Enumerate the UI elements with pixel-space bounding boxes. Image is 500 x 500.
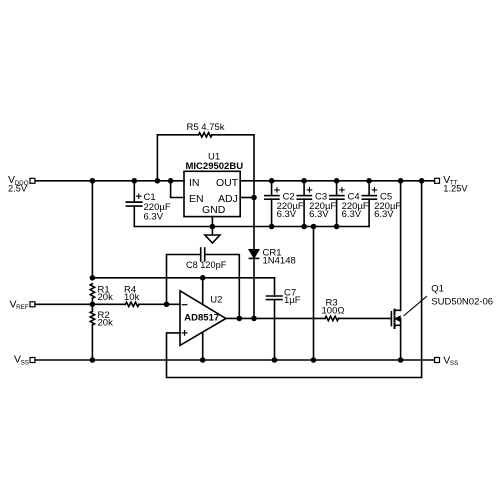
label R2 value — [98, 310, 114, 328]
wire R4 to inverting input — [139, 303, 180, 305]
node VSS left terminal — [30, 358, 35, 363]
svg-text:Q1: Q1 — [431, 284, 444, 295]
svg-text:SS: SS — [21, 359, 29, 366]
label C2 value — [277, 192, 304, 221]
wire VREF line to R4 — [35, 303, 125, 305]
svg-text:6.3V: 6.3V — [144, 212, 164, 223]
wire VDDQ input rail — [35, 180, 184, 182]
label Q1 part — [431, 284, 493, 308]
wire VSS rail — [35, 359, 435, 361]
junction dots input rail — [90, 178, 174, 184]
label VSS right node — [443, 354, 458, 367]
svg-text:20k: 20k — [98, 292, 114, 303]
svg-text:1µF: 1µF — [284, 295, 301, 306]
capacitor C5 — [362, 181, 376, 227]
label R3 value — [322, 297, 345, 316]
wire ground bus under caps — [134, 226, 369, 228]
wire opamp V- pin — [202, 332, 204, 360]
resistor R5 — [199, 133, 213, 137]
svg-text:1.25V: 1.25V — [443, 184, 468, 194]
ground symbol — [205, 227, 220, 244]
capacitor C2 — [265, 181, 279, 227]
svg-text:100Ω: 100Ω — [322, 306, 345, 317]
label C5 value — [374, 192, 401, 221]
capacitor C8 — [201, 248, 205, 261]
resistor R1 — [90, 284, 94, 299]
label CR1 value — [263, 247, 296, 266]
svg-text:REF: REF — [16, 304, 29, 311]
label VTT node — [443, 174, 468, 194]
svg-text:R5 4.75k: R5 4.75k — [187, 122, 225, 133]
capacitor C7 — [267, 278, 283, 360]
svg-text:SUD50N02-06: SUD50N02-06 — [431, 296, 493, 307]
node VDDQ terminal — [30, 178, 35, 183]
wire opamp V+ pin — [202, 278, 204, 305]
svg-text:OUT: OUT — [216, 177, 239, 189]
wire R5 left riser — [157, 135, 198, 181]
junction dots V+ power line — [90, 275, 206, 281]
op-amp U2 triangle — [180, 291, 226, 346]
svg-text:GND: GND — [202, 204, 226, 216]
svg-text:C8 120pF: C8 120pF — [186, 260, 227, 270]
svg-text:6.3V: 6.3V — [374, 209, 394, 220]
svg-text:6.3V: 6.3V — [309, 209, 329, 220]
opamp minus input symbol — [182, 304, 187, 306]
svg-text:IN: IN — [189, 177, 200, 189]
opamp plus input symbol — [182, 331, 187, 336]
resistor R2 — [90, 304, 94, 360]
resistor R3 — [325, 316, 339, 320]
wire opamp V+ power line — [92, 277, 274, 279]
node VREF terminal — [30, 302, 35, 307]
wire EN tie to input rail — [171, 181, 184, 198]
svg-text:6.3V: 6.3V — [342, 209, 362, 220]
node VTT terminal — [435, 178, 440, 183]
svg-text:20k: 20k — [98, 317, 114, 328]
capacitor C4 — [330, 181, 344, 227]
node VSS right terminal — [435, 358, 440, 363]
label VDDQ node — [8, 174, 29, 193]
wire opamp output — [226, 317, 325, 319]
capacitor C1 — [126, 181, 141, 227]
svg-text:1N4148: 1N4148 — [263, 256, 296, 267]
label R4 value — [124, 285, 140, 304]
wire R1 column drop from VDDQ rail — [91, 181, 93, 278]
svg-text:SS: SS — [450, 360, 458, 367]
transistor Q1 MOSFET — [391, 310, 400, 360]
svg-text:6.3V: 6.3V — [277, 209, 297, 220]
svg-text:2.5V: 2.5V — [8, 184, 28, 194]
svg-text:10k: 10k — [124, 292, 140, 303]
junction dots ground bus — [210, 224, 340, 230]
wire ground bus drop to VSS rail — [313, 227, 315, 361]
label C1 value — [144, 192, 171, 223]
diode CR1 — [249, 198, 258, 319]
svg-text:U2: U2 — [210, 295, 222, 306]
wire U1 GND pin — [211, 217, 213, 227]
wire R5 right to ADJ node — [212, 135, 254, 198]
label VREF node — [10, 299, 29, 312]
junction dots output line — [237, 316, 257, 322]
junction dots output rail — [269, 178, 425, 184]
label C7 value — [284, 288, 301, 306]
wire C8 to output drop — [205, 255, 240, 319]
op-amp regulator U1 box — [184, 171, 240, 216]
annotation pointer Q1 — [404, 297, 427, 316]
wire noninverting input to bottom feedback — [167, 181, 422, 378]
label C4 value — [342, 192, 369, 221]
junction dot ADJ node — [251, 195, 257, 201]
wire R3 to Q1 gate — [339, 317, 390, 319]
label R1 value — [98, 285, 114, 304]
wire R1 bottom stub — [91, 298, 93, 304]
wire ADJ pin stub — [240, 197, 254, 199]
svg-text:AD8517: AD8517 — [184, 313, 219, 324]
svg-text:MIC29502BU: MIC29502BU — [186, 161, 244, 172]
capacitor C3 — [297, 181, 311, 227]
wire C8 feedback riser — [167, 255, 201, 305]
wire OUT output rail to VTT — [240, 180, 434, 182]
resistor R4 — [125, 302, 138, 306]
label VSS left node — [14, 354, 29, 367]
wire Q1 drain riser — [400, 181, 402, 310]
junction dots VREF line — [90, 302, 170, 308]
label C3 value — [309, 192, 336, 221]
junction dots VSS rail — [90, 357, 404, 363]
